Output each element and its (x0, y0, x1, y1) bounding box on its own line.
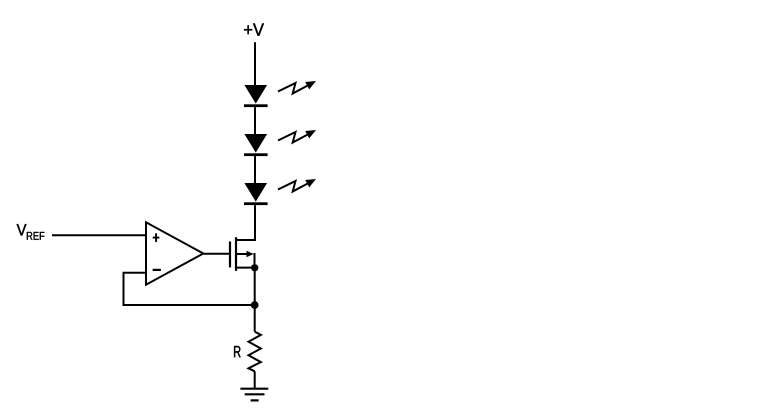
LED D3 (244, 183, 268, 205)
LED D2 (244, 134, 268, 156)
wire LED D1 cathode to LED D2 anode (254, 107, 256, 135)
wire VREF to op-amp noninverting input (52, 234, 146, 236)
wire LED D2 cathode to LED D3 anode (254, 156, 256, 184)
wire LED D3 cathode to MOSFET Q1 drain (236, 205, 255, 240)
node +V supply label (244, 23, 264, 35)
MOSFET Q1 (230, 237, 255, 271)
wire feedback node to op-amp inverting input (124, 273, 255, 305)
ground (240, 389, 268, 401)
LED D1 (244, 85, 268, 107)
wire feedback node to resistor R (254, 305, 256, 332)
node feedback junction dot (251, 301, 259, 309)
wire +V to LED D1 anode (254, 42, 256, 86)
node VREF input label (17, 224, 45, 240)
LED D1 light arrow (278, 81, 316, 94)
wire op-amp output to MOSFET Q1 gate (203, 253, 230, 255)
op-amp U1 (146, 222, 203, 284)
resistor R value label (234, 346, 240, 357)
wire MOSFET Q1 source to feedback node (254, 268, 256, 305)
node source junction dot (251, 264, 258, 271)
wire resistor R to ground (254, 371, 256, 388)
LED D2 light arrow (278, 130, 316, 143)
resistor R (249, 332, 261, 372)
LED D3 light arrow (278, 179, 316, 192)
